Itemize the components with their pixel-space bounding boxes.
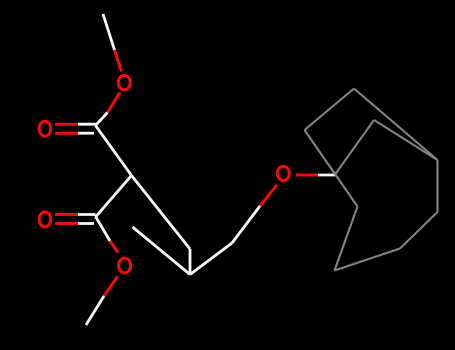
O1 to carbonyl C1 (white half) xyxy=(96,113,108,126)
C2=O double bond (white halves) xyxy=(78,213,96,216)
ring bond bridgehead B1 to bridge CH2 apex xyxy=(305,89,355,131)
C1=O double bond (red halves) xyxy=(55,123,78,126)
ring bond top-right to B2 xyxy=(374,120,438,160)
ester O1 atom xyxy=(118,75,130,89)
ring bottom-right bond xyxy=(400,212,438,249)
chain bond from central CH xyxy=(132,176,191,250)
ether O3 to ring vertex V1 (white half) xyxy=(318,174,335,177)
C2=O double bond (red halves) xyxy=(55,213,78,216)
ring bottom bond xyxy=(335,249,401,271)
methyl of upper ester (red half near O1) xyxy=(115,50,122,72)
C1 to central CH bond xyxy=(96,126,132,176)
C2 to ester O2 (red half) xyxy=(110,241,118,253)
methyl of lower ester (white half) xyxy=(86,296,104,325)
short vertical chain bond xyxy=(189,249,192,275)
ring bond B1 through V1 down xyxy=(305,130,358,207)
CH2 to ether O3 (white half) xyxy=(232,206,260,243)
ether O3 to ring vertex V1 (red half) xyxy=(296,174,318,177)
carbonyl O of lower ester xyxy=(39,212,51,227)
C1=O double bond (white halves) xyxy=(78,123,96,126)
ester O2 atom xyxy=(119,258,131,273)
ring bond V1 up-right xyxy=(335,120,374,175)
methyl of lower ester (red half near O2) xyxy=(104,277,118,297)
ring bond closing left-bottom xyxy=(335,207,358,271)
branch methyl bond xyxy=(133,227,191,275)
C2 to ester O2 (white half) xyxy=(96,217,111,242)
ether O3 atom xyxy=(277,166,289,180)
carbonyl O of upper ester xyxy=(39,121,51,136)
methyl of upper ester (white half) xyxy=(103,14,115,50)
chain bond to CH2 xyxy=(190,243,232,275)
central CH to C2 bond xyxy=(96,176,132,218)
ring long bridge bond apex to B2 xyxy=(354,89,438,161)
CH2 to ether O3 (red half) xyxy=(260,185,277,206)
O1 to carbonyl C1 (red half) xyxy=(108,93,120,113)
ring right vertical bond xyxy=(436,160,438,212)
